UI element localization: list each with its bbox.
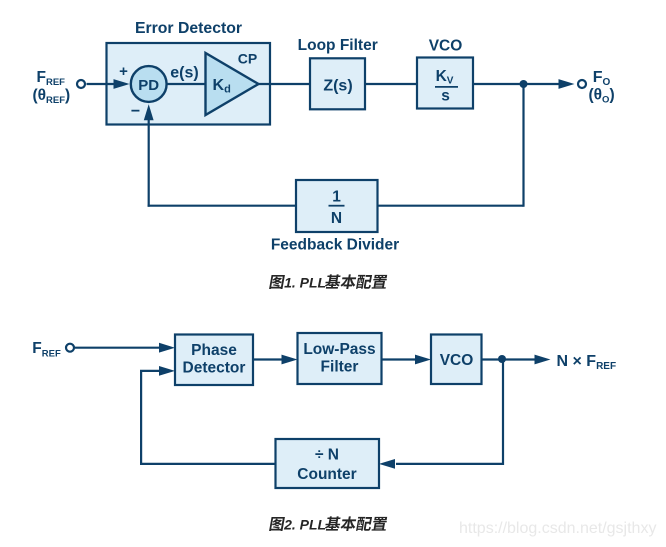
junction node (520, 80, 528, 88)
svg-text:+: + (119, 63, 128, 80)
wire FREF to PD (87, 83, 116, 85)
caption figure 1 (269, 275, 285, 289)
terminal FO (578, 80, 586, 88)
svg-text:Low-Pass: Low-Pass (303, 341, 375, 358)
svg-text:PD: PD (138, 77, 159, 94)
svg-text:s: s (441, 87, 450, 104)
svg-text:−: − (131, 103, 140, 120)
wire feedback down (522, 84, 524, 207)
svg-text:CP: CP (238, 51, 257, 67)
wire feedback left right-half (378, 205, 524, 207)
feedback divider 1/N (296, 180, 378, 232)
amplifier Kd (206, 53, 259, 115)
svg-text:N: N (331, 210, 342, 227)
wire Z(s) to VCO (365, 83, 417, 85)
svg-text:VCO: VCO (429, 38, 463, 55)
wire low-pass filter to VCO2 (382, 358, 416, 360)
svg-text:(θREF): (θREF) (33, 87, 71, 106)
divide by N counter block (276, 439, 380, 488)
wire FREF2 to phase detector (75, 347, 159, 349)
svg-text:N × FREF: N × FREF (557, 353, 617, 372)
wire feedback2 into phase detector (140, 370, 159, 372)
svg-text:2. PLL: 2. PLL (283, 517, 326, 533)
phase detector PD (131, 66, 167, 102)
wire feedback2 left to counter (396, 463, 503, 465)
wire counter to left vertical (140, 463, 276, 465)
node FREF input label (33, 69, 71, 106)
wire PD to Kd (167, 83, 206, 85)
wire feedback2 down (502, 360, 504, 466)
wire feedback2 up (140, 371, 142, 465)
svg-text:FO: FO (593, 69, 611, 88)
wire feedback left left-half (148, 205, 296, 207)
wire feedback up to PD (148, 119, 150, 207)
vco2 block (431, 335, 482, 385)
wire VCO to output (473, 83, 559, 85)
svg-text:Feedback Divider: Feedback Divider (271, 237, 399, 254)
node FO output label (589, 69, 615, 106)
junction node 2 (498, 355, 506, 363)
wire Kd to Z(s) (259, 83, 311, 85)
phase detector block (175, 335, 253, 386)
svg-text:(θO): (θO) (589, 87, 615, 106)
svg-text:FREF: FREF (32, 340, 61, 359)
wire VCO2 to output (482, 358, 536, 360)
svg-text:Error Detector: Error Detector (135, 20, 242, 37)
svg-text:Detector: Detector (183, 360, 246, 377)
vco block Kv/s (417, 58, 473, 109)
svg-text:e(s): e(s) (170, 65, 198, 82)
svg-text:https://blog.csdn.net/gsjthxy: https://blog.csdn.net/gsjthxy (459, 520, 656, 537)
terminal FREF (77, 80, 85, 88)
svg-text:Phase: Phase (191, 342, 237, 359)
error detector block (107, 43, 271, 125)
low-pass filter block (298, 333, 382, 384)
caption figure 2 (269, 517, 285, 531)
svg-text:Loop Filter: Loop Filter (298, 37, 378, 54)
svg-text:Filter: Filter (321, 359, 359, 376)
wire phase detector to low-pass filter (253, 358, 282, 360)
loop filter Z(s) (310, 58, 365, 109)
svg-text:FREF: FREF (37, 69, 66, 88)
svg-text:Counter: Counter (297, 466, 356, 483)
terminal FREF2 (66, 344, 74, 352)
svg-text:÷ N: ÷ N (315, 447, 339, 464)
svg-text:Z(s): Z(s) (323, 77, 352, 94)
svg-text:VCO: VCO (440, 352, 474, 369)
svg-text:1. PLL: 1. PLL (284, 275, 326, 291)
svg-text:1: 1 (332, 189, 341, 206)
